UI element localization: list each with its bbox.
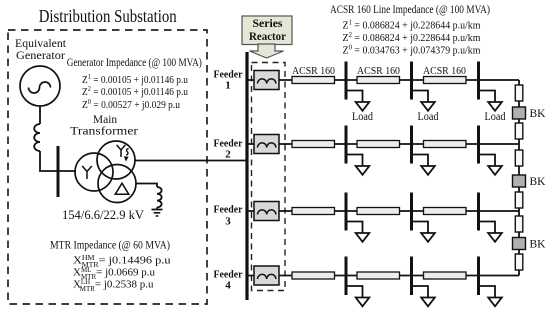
svg-text:Load: Load bbox=[352, 111, 373, 123]
transformer MTR (3-winding, 3 circles) bbox=[75, 141, 136, 203]
load tap F1-B2 bbox=[412, 91, 439, 124]
series reactor SR4 bbox=[254, 266, 279, 285]
load tap F3-B3 bbox=[479, 222, 502, 242]
bus bar F2-B1 bbox=[345, 126, 348, 164]
series reactor SR1 bbox=[254, 71, 279, 90]
substation boundary (dashed box) bbox=[8, 30, 207, 304]
tie reactor T1a bbox=[515, 85, 523, 101]
wire: tertiary to grounding coil bbox=[136, 184, 157, 188]
svg-text:Equivalent: Equivalent bbox=[15, 38, 67, 50]
load tap F3-B1 bbox=[346, 222, 369, 242]
svg-text:3: 3 bbox=[225, 216, 231, 228]
line segment L4-2 bbox=[357, 272, 400, 279]
bus bar F1-B1 bbox=[345, 62, 348, 100]
svg-text:BK: BK bbox=[530, 108, 547, 120]
svg-text:Load: Load bbox=[485, 111, 506, 123]
wire: generator down to impedance coil bbox=[39, 106, 41, 124]
svg-text:BK: BK bbox=[530, 176, 547, 188]
label: Main Transformer bbox=[70, 114, 138, 138]
line segment L4-1 bbox=[292, 272, 335, 279]
load tap F4-B3 bbox=[479, 286, 502, 306]
breaker BK1 bbox=[513, 107, 547, 120]
bus bar F3-B3 bbox=[477, 193, 480, 231]
load tap F1-B1 bbox=[346, 91, 373, 124]
symbol: wye with tap arrow (top winding) bbox=[117, 145, 129, 162]
line segment L1-3 (ACSR 160) bbox=[424, 77, 467, 84]
svg-text:Main: Main bbox=[93, 114, 118, 126]
svg-text:Z2 = 0.00105 + j0.01146 p.u: Z2 = 0.00105 + j0.01146 p.u bbox=[82, 84, 188, 98]
svg-text:Z1 = 0.00105 + j0.01146 p.u: Z1 = 0.00105 + j0.01146 p.u bbox=[82, 72, 188, 86]
callout: Series Reactor bbox=[242, 16, 292, 58]
load tap F2-B2 bbox=[412, 155, 435, 175]
line segment L3-2 bbox=[357, 208, 400, 215]
label: Feeder 3 bbox=[214, 204, 243, 228]
inductor: generator source impedance coil bbox=[34, 124, 40, 151]
svg-text:Feeder: Feeder bbox=[214, 204, 243, 216]
bus bar F1-B2 bbox=[410, 62, 413, 100]
series reactor group boundary (dashed box) bbox=[252, 63, 286, 291]
svg-text:Reactor: Reactor bbox=[249, 31, 286, 43]
load tap F2-B3 bbox=[479, 155, 502, 175]
svg-text:MTR Impedance (@ 60 MVA): MTR Impedance (@ 60 MVA) bbox=[50, 238, 170, 252]
wire: coil to HV bus (L-shape) bbox=[40, 151, 76, 171]
svg-text:Generator Impedance (@ 100 MVA: Generator Impedance (@ 100 MVA) bbox=[67, 55, 202, 69]
wire: transformer secondary to main feeder bus bbox=[135, 160, 247, 162]
svg-text:Distribution Substation: Distribution Substation bbox=[39, 6, 177, 26]
svg-text:Z0 = 0.034763 + j0.074379 p.u/: Z0 = 0.034763 + j0.074379 p.u/km bbox=[343, 43, 481, 57]
bus bar F2-B2 bbox=[410, 126, 413, 164]
bus bar F4-B1 bbox=[345, 257, 348, 296]
bus bar F3-B1 bbox=[345, 193, 348, 231]
symbol: delta (bottom winding) bbox=[115, 183, 129, 194]
line segment L3-3 bbox=[424, 208, 467, 215]
line segment L2-2 bbox=[357, 141, 400, 148]
load tap F4-B1 bbox=[346, 286, 369, 306]
bus bar F4-B2 bbox=[410, 257, 413, 296]
inductor: neutral grounding coil bbox=[157, 187, 162, 210]
svg-text:4: 4 bbox=[225, 280, 231, 292]
line segment L1-2 (ACSR 160) bbox=[357, 77, 400, 84]
wire: feeder 2 line bbox=[249, 143, 520, 145]
line segment L3-1 bbox=[292, 208, 335, 215]
ground symbol bbox=[152, 210, 163, 217]
svg-text:Z2 = 0.086824 + j0.228644 p.u/: Z2 = 0.086824 + j0.228644 p.u/km bbox=[343, 30, 481, 44]
svg-text:Z0 = 0.00527 + j0.029 p.u: Z0 = 0.00527 + j0.029 p.u bbox=[82, 97, 180, 111]
svg-text:Z1 = 0.086824 + j0.228644 p.u/: Z1 = 0.086824 + j0.228644 p.u/km bbox=[343, 18, 481, 32]
main feeder bus bar (vertical) bbox=[245, 52, 248, 300]
series reactor SR3 bbox=[254, 202, 279, 221]
load tap F4-B2 bbox=[412, 286, 435, 306]
bus bar F4-B3 bbox=[477, 257, 480, 296]
load tap F1-B3 bbox=[479, 91, 506, 124]
label: Feeder 2 bbox=[214, 138, 243, 161]
tie reactor T2b bbox=[515, 192, 523, 208]
tie reactor T2a bbox=[515, 150, 523, 166]
tie reactor T3a bbox=[515, 216, 523, 232]
label: Feeder 4 bbox=[214, 269, 243, 292]
wire: feeder 3 line bbox=[249, 210, 520, 212]
svg-text:1: 1 bbox=[225, 80, 231, 92]
svg-text:ACSR 160: ACSR 160 bbox=[292, 65, 335, 77]
svg-text:Load: Load bbox=[418, 111, 439, 123]
HV bus bar bbox=[57, 146, 60, 197]
load tap F3-B2 bbox=[412, 222, 435, 242]
line segment L4-3 bbox=[424, 272, 467, 279]
svg-text:Transformer: Transformer bbox=[70, 126, 138, 138]
bus bar F1-B3 bbox=[477, 62, 480, 100]
tie reactor T1b bbox=[515, 123, 523, 139]
breaker BK2 bbox=[513, 175, 547, 188]
bus bar F3-B2 bbox=[410, 193, 413, 231]
wire: bus-tie column bbox=[518, 80, 520, 276]
wire: feeder 1 line bbox=[249, 79, 520, 81]
svg-text:154/6.6/22.9 kV: 154/6.6/22.9 kV bbox=[62, 208, 144, 222]
svg-text:ACSR 160: ACSR 160 bbox=[423, 65, 466, 77]
svg-text:2: 2 bbox=[225, 149, 231, 161]
generator G1 (circle with sine) bbox=[20, 66, 60, 106]
svg-text:ACSR 160: ACSR 160 bbox=[357, 65, 400, 77]
line segment L1-1 (ACSR 160) bbox=[292, 77, 335, 84]
load tap F2-B1 bbox=[346, 155, 369, 175]
bus bar F2-B3 bbox=[477, 126, 480, 164]
svg-text:Series: Series bbox=[253, 18, 284, 30]
label: Equivalent Generator bbox=[15, 38, 67, 62]
breaker BK3 bbox=[513, 238, 547, 251]
label: Feeder 1 bbox=[214, 69, 243, 92]
line segment L2-3 bbox=[424, 141, 467, 148]
series reactor SR2 bbox=[254, 135, 279, 154]
wire: feeder 4 line bbox=[249, 275, 520, 277]
tie reactor T3b bbox=[515, 254, 523, 270]
svg-text:Generator: Generator bbox=[16, 50, 65, 62]
svg-text:ACSR 160 Line Impedance (@ 100: ACSR 160 Line Impedance (@ 100 MVA) bbox=[330, 2, 490, 16]
line segment L2-1 bbox=[292, 141, 335, 148]
symbol: wye (left winding) bbox=[82, 166, 92, 179]
svg-text:BK: BK bbox=[530, 239, 547, 251]
